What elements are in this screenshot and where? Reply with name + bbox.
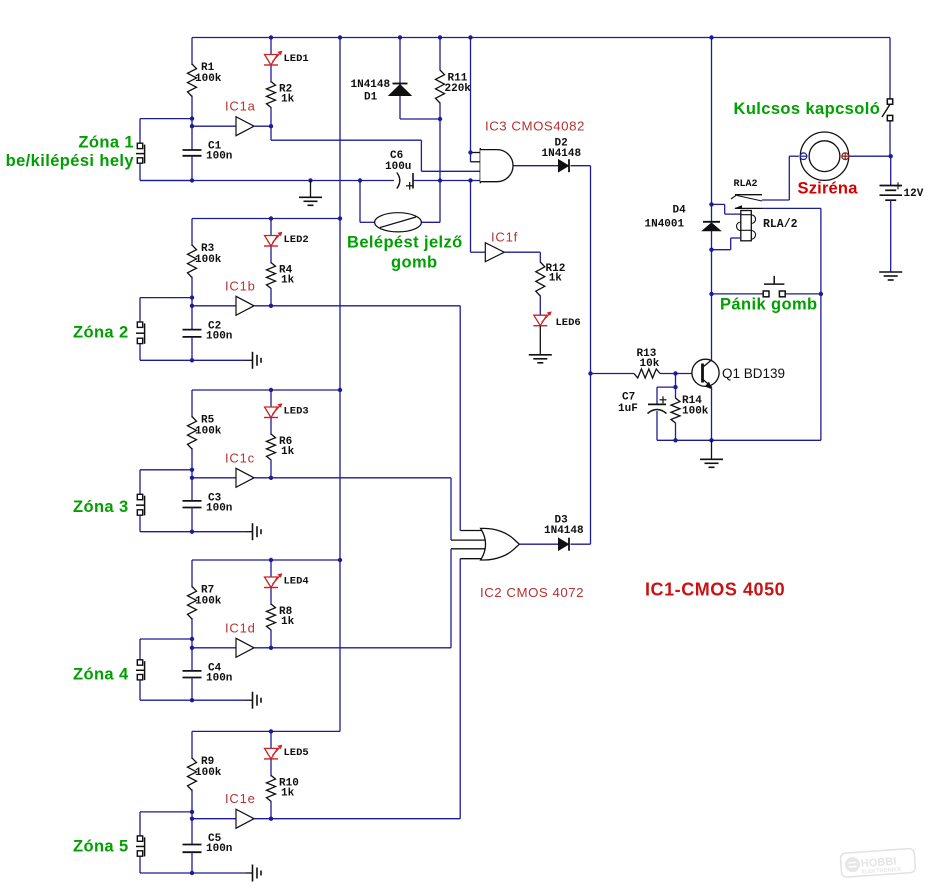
label R1 (201, 62, 215, 74)
label IC1f (491, 230, 518, 245)
label R5 (201, 415, 215, 427)
diode D1 1N4148 (389, 84, 411, 96)
diode D4 1N4001 (703, 222, 721, 231)
svg-text:IC1a: IC1a (225, 99, 256, 114)
label D1 (364, 92, 378, 104)
wire: zone 5 switch lower link (140, 857, 192, 874)
wire: zone5 output to IC2 input 4 (271, 559, 460, 819)
svg-text:IC1b: IC1b (225, 278, 256, 293)
wire: C5 to zone 5 bottom rail (191, 852, 193, 873)
op-amp buffer IC1d (236, 638, 254, 657)
resistor R1 100k (188, 64, 197, 97)
resistor R3 100k (188, 245, 197, 278)
node D1/R11 junction (438, 117, 442, 121)
wire: buffer IC1e output (254, 818, 271, 820)
svg-text:100n: 100n (206, 151, 232, 163)
wire: LED5 to R10 (270, 759, 272, 776)
label IC1a (225, 99, 256, 114)
LED LED1 (264, 51, 282, 65)
wire: zone 3 node vertical (191, 470, 193, 501)
svg-text:IC1e: IC1e (225, 791, 256, 806)
capacitor C1 100n (183, 150, 202, 156)
svg-text:Pánik gomb: Pánik gomb (720, 296, 818, 314)
node relay bottom (709, 248, 713, 252)
svg-text:Zóna 2: Zóna 2 (73, 324, 129, 342)
wire: zone 5 switch upper link (140, 812, 192, 836)
LED LED5 (264, 745, 282, 759)
op-amp buffer IC1a (236, 117, 254, 136)
label IC2 CMOS 4072 (480, 585, 584, 600)
node zone 5 rail at LED (269, 729, 273, 733)
resistor R9 100k (188, 758, 197, 791)
wire: zone 2 node vertical (191, 298, 193, 330)
label C7 value 1uF (618, 403, 638, 415)
label LED3 (284, 406, 309, 418)
wire: R2 to output node (270, 107, 272, 126)
resistor R11 220k (436, 70, 445, 103)
svg-text:100u: 100u (385, 161, 411, 173)
label C2 (208, 320, 221, 332)
wire: IC3 input 4 stub and IC1f feed (471, 181, 486, 253)
label IC3 CMOS4082 (485, 119, 585, 134)
node zone 3 bottom at C (190, 530, 194, 534)
wire: zone2 output to IC2 input 1 (271, 306, 460, 531)
svg-text:10k: 10k (640, 358, 660, 370)
ground LED6 (529, 355, 552, 363)
wire: buffer IC1b input (192, 305, 236, 307)
label R11 value 220k (445, 83, 472, 95)
label R5 value 100k (195, 426, 222, 438)
push-button panic (Panik gomb) (763, 276, 785, 297)
node zone 5 output (269, 817, 273, 821)
relay contact RLA2 (731, 195, 762, 209)
wire: zone 4 node vertical (191, 639, 193, 671)
label LED5 (284, 747, 309, 759)
wire: buffer IC1a output (254, 125, 271, 127)
label R14 value 100k (682, 406, 709, 418)
wire: R8 to output node (270, 630, 272, 648)
node zone 3 buffer input junction (190, 476, 194, 480)
resistor R4 1k (267, 263, 276, 289)
label R2 (279, 84, 292, 96)
watermark HOBBI Elektronika logo (840, 848, 915, 877)
ground zone 2 (246, 352, 262, 369)
wire: LED2 to R4 (270, 247, 272, 264)
battery 12V (880, 182, 903, 200)
label C6 value 100u (385, 161, 411, 173)
node zone 2 buffer input junction (190, 304, 194, 308)
wire: zone1 output route to IC3 input 3 (271, 126, 480, 171)
svg-text:1N4001: 1N4001 (645, 219, 685, 231)
wire: R13 to Q1 base (660, 373, 692, 375)
node emitter rail at R14 (673, 438, 677, 442)
wire: buffer IC1b output (254, 305, 271, 307)
wire: IC2 output (519, 543, 558, 545)
wire: IC2 input stubs (451, 531, 487, 559)
label IC1e (225, 791, 256, 806)
node relay top (709, 202, 713, 206)
label C3 (208, 492, 222, 504)
wire: zone1 bottom bus (140, 180, 480, 182)
svg-text:1k: 1k (281, 275, 295, 287)
label R3 (201, 243, 215, 255)
wire: battery top lead (890, 156, 892, 185)
label LED1 (284, 53, 309, 65)
label LED4 (284, 576, 309, 588)
svg-text:100n: 100n (206, 330, 232, 342)
label LED2 (284, 234, 309, 246)
label R6 value 1k (281, 446, 295, 458)
wire: zone 2 supply rail (192, 218, 340, 220)
label IC1c (225, 450, 255, 465)
wire: zone 4 bottom rail to ground (192, 699, 246, 701)
or-gate IC2 CMOS4072 (481, 528, 520, 560)
wire: C1 to zone 1 bottom rail (191, 156, 193, 181)
capacitor C6 100u electrolytic (397, 173, 414, 190)
node zone 3 switch/resistor junction (190, 468, 194, 472)
label Zona 3 (73, 498, 129, 516)
wire: bus to R13 (591, 373, 635, 375)
siren (Szirena) (800, 132, 850, 180)
wire: C2 to zone 2 bottom rail (191, 337, 193, 360)
wire: siren positive to battery rail (849, 155, 891, 157)
label R6 (279, 436, 292, 448)
svg-text:D1: D1 (364, 92, 378, 104)
node on top rail x=340 (338, 35, 342, 39)
node zone 2 switch/resistor junction (190, 295, 194, 299)
capacitor C2 100n (183, 330, 202, 337)
wire: zone 3 switch upper link (140, 470, 192, 494)
switch zone 4 sensor contact (136, 660, 145, 680)
wire: zone 1 node vertical (191, 119, 193, 150)
label IC1-CMOS 4050 (645, 580, 785, 600)
label Zona 1 (78, 134, 134, 152)
label RLA/2 (763, 218, 798, 231)
svg-text:LED3: LED3 (284, 406, 309, 418)
switch zone 5 sensor contact (136, 836, 145, 857)
label R9 value 100k (195, 767, 222, 779)
node on top rail above relay line (709, 35, 713, 39)
label R14 (682, 395, 702, 407)
node zone 4 bottom at C (190, 698, 194, 702)
node zone 3 rail at LED (269, 388, 273, 392)
node bus at IC3 input 4 (468, 178, 472, 182)
node on top rail above IC3 input (468, 35, 472, 39)
svg-text:gomb: gomb (391, 254, 438, 272)
svg-text:100n: 100n (206, 843, 232, 855)
svg-text:1N4148: 1N4148 (542, 148, 582, 160)
node zone 3 output (269, 476, 273, 480)
label IC1b (225, 278, 256, 293)
svg-text:220k: 220k (445, 83, 472, 95)
label R2 value 1k (281, 94, 295, 106)
resistor R7 100k (188, 587, 197, 620)
wire: relay coil bottom link (712, 238, 741, 250)
wire: LED4 to R8 (270, 588, 272, 605)
wire: panic row (712, 293, 821, 295)
svg-text:Sziréna: Sziréna (798, 180, 859, 198)
node zone 5 switch/resistor junction (190, 810, 194, 814)
wire: zone 5 bottom rail to ground (192, 872, 246, 874)
node right rail at panic row (819, 292, 823, 296)
node zone 4 switch/resistor junction (190, 637, 194, 641)
svg-text:1N4148: 1N4148 (544, 525, 584, 537)
label RLA2 (734, 179, 758, 190)
wire: IC3 output (513, 165, 559, 167)
label Belepest jelzo gomb line2 (391, 254, 438, 272)
svg-text:100k: 100k (195, 767, 222, 779)
op-amp buffer IC1e (236, 809, 254, 828)
op-amp buffer IC1b (236, 296, 254, 315)
ground zone 3 (246, 523, 262, 540)
label C6 (390, 150, 403, 162)
svg-text:Zóna 3: Zóna 3 (73, 498, 129, 516)
wire: battery to ground (890, 200, 892, 272)
ground zone 1 (299, 181, 322, 206)
wire: zone 2 switch lower link (140, 344, 192, 360)
label Belepest jelzo gomb line1 (347, 234, 463, 252)
label Panik gomb (720, 296, 818, 314)
resistor R14 100k (671, 398, 680, 423)
label D4 (673, 205, 687, 217)
svg-text:be/kilépési hely: be/kilépési hely (6, 152, 135, 170)
svg-text:Belépést jelző: Belépést jelző (347, 234, 463, 252)
resistor R6 1k (267, 434, 276, 460)
svg-text:RLA/2: RLA/2 (763, 218, 798, 231)
ground zone 4 (246, 692, 262, 709)
wire: buffer IC1a input (192, 125, 236, 127)
switch zone 3 sensor contact (136, 494, 145, 515)
wire: R11 branch vertical (439, 38, 441, 223)
svg-text:1k: 1k (281, 616, 295, 628)
label C4 (208, 662, 222, 674)
label Szirena (798, 180, 859, 198)
label D2 (555, 138, 568, 150)
wire: C4 to zone 4 bottom rail (191, 678, 193, 701)
node on top rail above D1 (398, 35, 402, 39)
wire: entry button right leg (421, 221, 440, 223)
capacitor C3 100n (183, 501, 202, 508)
label R10 (279, 777, 299, 789)
node Q1 base / R14 (673, 371, 677, 375)
wire: R12 to LED6 (539, 296, 541, 316)
wire: R7 branch vertical (191, 560, 193, 639)
svg-text:IC3 CMOS4082: IC3 CMOS4082 (485, 119, 585, 134)
node supply rail zone2 (338, 216, 342, 220)
svg-text:IC1d: IC1d (225, 620, 256, 635)
label C5 (208, 833, 222, 845)
label D3 (555, 515, 569, 527)
wire: R3 branch vertical (191, 219, 193, 298)
wire: buffer IC1c output (254, 477, 271, 479)
node zone 5 buffer input junction (190, 817, 194, 821)
wire: C7 to emitter rail (657, 411, 821, 440)
wire: C7 branch (657, 387, 676, 404)
wire: zone 3 bottom rail to ground (192, 531, 246, 533)
label C5 value 100n (206, 843, 232, 855)
label Zona 4 (73, 666, 129, 684)
label Zona 5 (73, 838, 129, 856)
switch: key switch (Kulcsos kapcsolo) (882, 99, 893, 121)
label D2 type 1N4148 (542, 148, 582, 160)
resistor R5 100k (188, 417, 197, 450)
wire: buffer IC1d output (254, 647, 271, 649)
node zone 2 bottom at C (190, 358, 194, 362)
capacitor C7 1uF electrolytic (648, 396, 667, 413)
node IC3 input tie (468, 150, 472, 154)
svg-text:IC1c: IC1c (225, 450, 255, 465)
switch zone 1 sensor contact (136, 143, 145, 163)
label R7 (201, 585, 214, 597)
switch zone 2 sensor contact (136, 322, 145, 344)
wire: buffer IC1e input (192, 818, 236, 820)
wire: siren negative to relay contact (762, 156, 799, 200)
label R8 (279, 606, 293, 618)
label R4 (279, 265, 293, 277)
wire: zone 3 supply rail (192, 389, 340, 391)
node supply rail zone4 (338, 558, 342, 562)
label LED6 (556, 317, 581, 329)
wire: zone 4 switch upper link (140, 639, 192, 660)
node zone 2 rail at LED (269, 216, 273, 220)
wire: R1 branch vertical (191, 38, 193, 119)
node zone 2 output (269, 304, 273, 308)
node supply rail zone3 (338, 388, 342, 392)
svg-text:RLA2: RLA2 (734, 179, 758, 190)
label C1 (208, 141, 222, 153)
wire: key switch to siren node (889, 121, 891, 156)
label C3 value 100n (206, 502, 232, 514)
svg-text:1k: 1k (281, 446, 295, 458)
capacitor C5 100n (183, 845, 202, 853)
wire: zone 1 switch lower link (140, 164, 192, 181)
LED LED2 (264, 232, 282, 246)
capacitor C4 100n (183, 671, 202, 678)
wire: R5 branch vertical (191, 390, 193, 470)
svg-text:LED2: LED2 (284, 234, 309, 246)
svg-text:100k: 100k (195, 254, 222, 266)
node on top rail above R11 (438, 35, 442, 39)
wire: top rail drop to key switch (889, 38, 891, 99)
label R7 value 100k (195, 596, 222, 608)
node zone 1 output (269, 124, 273, 128)
svg-text:1uF: 1uF (618, 403, 638, 415)
label D3 type 1N4148 (544, 525, 584, 537)
label R9 (201, 756, 214, 768)
label C4 value 100n (206, 672, 232, 684)
resistor R13 10k (634, 369, 660, 378)
node zone 4 buffer input junction (190, 646, 194, 650)
label 12V (904, 188, 924, 200)
op-amp buffer IC1f (485, 243, 504, 262)
LED LED6 (533, 311, 551, 325)
LED LED4 (264, 573, 282, 587)
and-gate IC3 CMOS4082 (480, 148, 513, 183)
LED LED3 (264, 403, 282, 417)
svg-text:Zóna 1: Zóna 1 (78, 134, 134, 152)
wire: zone 5 supply rail (192, 730, 340, 732)
label R8 value 1k (281, 616, 295, 628)
wire: contact to right rail (762, 208, 821, 440)
wire: R6 to output node (270, 460, 272, 478)
wire: zone 1 switch upper link (140, 119, 192, 143)
wire: LED3 anode (270, 390, 272, 407)
wire: zone3 output to IC2 input 2 (271, 478, 451, 540)
label R12 value 1k (549, 273, 563, 285)
wire: LED1 anode (270, 38, 272, 55)
wire: zone 4 supply rail (192, 559, 340, 561)
node zone 4 output (269, 646, 273, 650)
wire: C3 to zone 3 bottom rail (191, 508, 193, 532)
wire: relay coil top link (712, 204, 741, 214)
svg-text:1N4148: 1N4148 (351, 79, 391, 91)
op-amp buffer IC1c (236, 468, 254, 487)
label R3 value 100k (195, 254, 222, 266)
node bus at ground (308, 178, 312, 182)
label R13 (637, 348, 657, 360)
wire: zone 2 switch upper link (140, 298, 192, 322)
switch: entry indicator button (Belepest jelzo gomb) (375, 213, 422, 232)
svg-text:IC1-CMOS 4050: IC1-CMOS 4050 (645, 580, 785, 600)
wire: IC1f output to R12 (504, 252, 540, 262)
svg-text:D4: D4 (673, 205, 687, 217)
wire: +12V top rail (192, 37, 890, 39)
node emitter rail at Q1 (709, 438, 713, 442)
node zone 4 rail at LED (269, 558, 273, 562)
wire: entry button left leg (360, 181, 375, 223)
label R12 (546, 263, 566, 275)
label C2 value 100n (206, 330, 232, 342)
wire: LED6 to ground (539, 326, 541, 355)
label C1 value 100n (206, 151, 232, 163)
wire: Q1 emitter (711, 387, 713, 441)
svg-text:1k: 1k (549, 273, 563, 285)
label R1 value 100k (195, 73, 222, 85)
diode D3 1N4148 (559, 538, 570, 551)
wire: zone 2 bottom rail to ground (192, 359, 246, 361)
svg-text:100k: 100k (195, 426, 222, 438)
svg-text:1k: 1k (281, 94, 295, 106)
svg-text:LED6: LED6 (556, 317, 581, 329)
wire: D1 branch (400, 38, 440, 120)
node signal bus to R13 (588, 371, 592, 375)
label R4 value 1k (281, 275, 295, 287)
node siren/battery/key junction (889, 154, 893, 158)
svg-text:LED1: LED1 (284, 53, 309, 65)
wire: LED4 anode (270, 560, 272, 577)
wire: buffer IC1d input (192, 647, 236, 649)
resistor R2 1k (267, 82, 276, 108)
svg-text:12V: 12V (904, 188, 924, 200)
svg-text:Zóna 5: Zóna 5 (73, 838, 129, 856)
ground battery (879, 272, 902, 280)
node bus at R11 (438, 178, 442, 182)
node zone 5 bottom at C (190, 871, 194, 875)
node zone 1 bottom at C (190, 178, 194, 182)
node on top rail above LED1 (269, 35, 273, 39)
svg-text:LED4: LED4 (284, 576, 309, 588)
svg-text:Q1 BD139: Q1 BD139 (722, 366, 785, 381)
svg-text:IC2 CMOS 4072: IC2 CMOS 4072 (480, 585, 584, 600)
svg-text:IC1f: IC1f (491, 230, 518, 245)
wire: base node down through R14 (675, 374, 677, 441)
wire: zone 5 node vertical (191, 812, 193, 845)
wire: LED1 to R2 (270, 66, 272, 83)
label R11 (448, 73, 468, 85)
ground zone 5 (246, 865, 262, 882)
wire: zone4 output to IC2 input 3 (271, 549, 451, 648)
wire: LED3 to R6 (270, 418, 272, 435)
